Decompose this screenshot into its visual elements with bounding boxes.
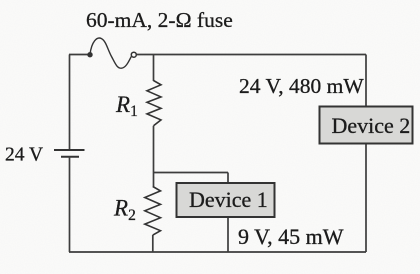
wire R2 bottom <box>152 235 154 252</box>
wire top-left segment <box>69 54 88 56</box>
svg-text:24 V, 480 mW: 24 V, 480 mW <box>239 74 364 98</box>
wire tap horizontal (node to device 1 branch) <box>154 172 229 174</box>
resistor R1 <box>147 81 161 126</box>
resistor R2 <box>145 187 161 236</box>
device 2 box <box>320 107 413 144</box>
svg-text:Device 1: Device 1 <box>189 187 268 212</box>
svg-text:9 V, 45 mW: 9 V, 45 mW <box>238 224 344 249</box>
svg-text:24 V: 24 V <box>5 145 43 166</box>
wire branch top (node to R1) <box>153 55 155 82</box>
wire right <box>365 55 367 253</box>
svg-text:Device 2: Device 2 <box>332 113 411 138</box>
device 1 box <box>177 183 275 217</box>
wire left upper (to battery) <box>69 55 71 151</box>
battery V1 24 V <box>54 150 85 157</box>
wire left lower (battery to bottom) <box>69 157 71 252</box>
wire bottom <box>69 251 366 253</box>
wire device 1 branch vertical <box>227 173 229 253</box>
wire between R1 and R2 <box>153 126 155 187</box>
fuse F1 (60-mA, 2-ohm) <box>88 38 137 68</box>
svg-text:60-mA, 2-Ω fuse: 60-mA, 2-Ω fuse <box>86 8 233 32</box>
wire top segment from fuse to top-right corner <box>137 54 367 56</box>
